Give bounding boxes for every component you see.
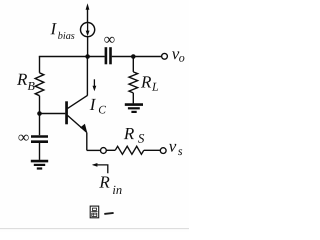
capacitor series (infinity) plates <box>106 47 111 64</box>
node collector junction <box>85 54 90 59</box>
ground left <box>31 161 48 168</box>
resistor RL <box>129 57 138 104</box>
supply arrow (up) <box>86 3 90 22</box>
svg-text:I: I <box>89 95 97 114</box>
svg-text:∞: ∞ <box>18 129 29 146</box>
label RS <box>123 124 145 146</box>
scan artifact line bottom <box>0 228 189 230</box>
transistor Q1 emitter arrowhead <box>80 124 87 132</box>
svg-text:s: s <box>178 144 183 158</box>
svg-text:C: C <box>98 104 106 116</box>
wire emitter vertical <box>86 132 88 150</box>
caption glyph yi (one) <box>104 213 113 214</box>
svg-text:R: R <box>123 124 135 143</box>
svg-text:in: in <box>112 183 122 197</box>
wire top horizontal left <box>39 56 105 58</box>
label RL <box>140 72 159 93</box>
transistor Q1 base bar <box>65 101 68 124</box>
svg-text:bias: bias <box>58 31 75 42</box>
transistor Q1 collector line <box>68 95 88 108</box>
terminal vs <box>160 148 166 154</box>
resistor RB <box>35 57 44 114</box>
label vo <box>172 44 185 65</box>
label Ibias <box>49 19 74 42</box>
svg-text:R: R <box>98 173 110 192</box>
label IC <box>89 95 107 116</box>
caption glyph tu (figure) <box>90 206 99 218</box>
current source Ibias <box>81 23 95 37</box>
arrow IC <box>93 79 97 91</box>
svg-text:o: o <box>179 51 185 65</box>
svg-text:R: R <box>140 72 152 91</box>
wire base <box>40 113 66 115</box>
ground right (RL) <box>125 105 143 112</box>
svg-text:∞: ∞ <box>104 31 115 48</box>
wire collector vertical <box>86 57 88 96</box>
capacitor bypass (infinity) <box>31 114 48 160</box>
svg-text:v: v <box>169 137 177 156</box>
svg-text:S: S <box>138 131 145 146</box>
svg-text:I: I <box>49 19 57 38</box>
wire emitter horizontal <box>87 149 101 151</box>
transistor Q1 emitter line <box>68 116 87 133</box>
terminal input <box>101 148 107 154</box>
label RB <box>16 70 36 93</box>
svg-text:R: R <box>16 70 28 89</box>
label vs <box>169 137 183 158</box>
resistor RS <box>106 146 160 154</box>
node RL junction <box>131 54 136 59</box>
terminal vo <box>162 53 168 59</box>
svg-text:B: B <box>27 79 35 93</box>
node base junction <box>37 111 42 116</box>
svg-text:L: L <box>151 80 159 94</box>
arrow Rin <box>92 163 108 173</box>
label Rin <box>98 173 122 197</box>
wire current source to node <box>87 36 89 56</box>
wire top horizontal right <box>112 56 162 58</box>
